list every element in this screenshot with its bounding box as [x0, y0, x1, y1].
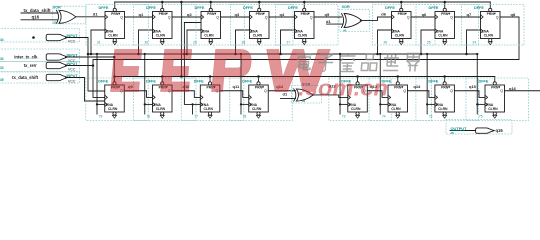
svg-text:PRN: PRN [398, 12, 406, 16]
svg-text:PRN: PRN [207, 12, 215, 16]
flip-flop DFFE #1 (q1) [86, 5, 149, 46]
svg-text:DFFE: DFFE [428, 79, 438, 83]
svg-text:Q: Q [500, 89, 503, 93]
svg-text:Q: Q [450, 15, 453, 19]
svg-text:78: 78 [243, 115, 247, 119]
wire q9 [124, 84, 152, 97]
svg-text:DFFE: DFFE [474, 6, 484, 10]
wire q16 out [505, 86, 540, 91]
svg-text:q8: q8 [511, 12, 516, 17]
svg-text:CLRN: CLRN [204, 107, 214, 111]
svg-text:PRN: PRN [111, 12, 119, 16]
wire q2 [172, 12, 201, 17]
flip-flop DFFE #4 (q4) [231, 5, 294, 46]
svg-text:q5: q5 [325, 12, 330, 17]
svg-text:q7: q7 [467, 12, 472, 17]
svg-text:26: 26 [384, 40, 388, 44]
svg-text:q6: q6 [422, 12, 427, 17]
wire tx_rst [66, 64, 95, 67]
svg-text:25: 25 [427, 40, 431, 44]
output pin q16 [446, 120, 512, 135]
flip-flop DFFE #10 (q10) [134, 78, 197, 121]
svg-text:VCC: VCC [68, 40, 76, 44]
svg-text:31: 31 [97, 40, 101, 44]
wire q13 [367, 84, 388, 97]
svg-text:24: 24 [473, 40, 477, 44]
svg-text:40: 40 [343, 29, 347, 33]
svg-text:Q: Q [264, 89, 267, 93]
wire q5 into XOR2 [314, 12, 342, 17]
svg-text:35: 35 [0, 78, 4, 82]
flip-flop DFFE #5 (q5) [276, 5, 339, 46]
wire: clock rail and ENA risers, top row [88, 30, 481, 55]
svg-text:36: 36 [451, 131, 455, 135]
wire q1 [125, 12, 153, 17]
svg-text:.com.cn: .com.cn [298, 76, 388, 101]
input pin (unnamed, bullet) [0, 29, 80, 44]
svg-text:q14: q14 [413, 84, 421, 89]
wire q10 [172, 84, 200, 97]
svg-text:Q: Q [265, 15, 268, 19]
svg-text:PRN: PRN [491, 86, 499, 90]
svg-text:Q: Q [216, 15, 219, 19]
flip-flop DFFE #15 (q15) [416, 78, 479, 121]
svg-text:d1: d1 [326, 19, 331, 24]
svg-text:CLRN: CLRN [395, 34, 405, 38]
svg-text:30: 30 [145, 40, 149, 44]
flip-flop DFFE #14 (q14) [369, 78, 432, 121]
svg-text:DFFE: DFFE [288, 6, 298, 10]
svg-text:CLRN: CLRN [252, 107, 262, 111]
flip-flop DFFE #13 (q13) [329, 78, 392, 121]
svg-text:DFFE: DFFE [146, 6, 156, 10]
watermark: grey Chinese characters [295, 53, 419, 72]
svg-text:CLRN: CLRN [156, 107, 166, 111]
XOR gate X2 (q5, d1 -> d6) [326, 5, 370, 33]
svg-text:CLRN: CLRN [156, 34, 166, 38]
svg-text:DFFE: DFFE [99, 6, 109, 10]
svg-text:q11: q11 [233, 84, 240, 89]
svg-text:d1: d1 [283, 91, 288, 96]
svg-text:34: 34 [0, 38, 4, 42]
flip-flop DFFE #2 (q2) [134, 5, 197, 46]
wire d13 [313, 83, 348, 97]
svg-text:76: 76 [147, 115, 151, 119]
svg-text:28: 28 [242, 40, 246, 44]
flip-flop DFFE #16 (q16) [466, 78, 529, 121]
svg-text:79: 79 [99, 115, 103, 119]
wire q4 [269, 12, 295, 17]
svg-text:Q: Q [450, 89, 453, 93]
svg-text:PRN: PRN [256, 12, 264, 16]
bottom row ENA stubs and junction dots [96, 53, 485, 114]
svg-text:CLRN: CLRN [298, 34, 308, 38]
svg-text:21: 21 [53, 20, 57, 24]
wire d6 [360, 11, 391, 20]
svg-text:PRN: PRN [441, 86, 449, 90]
svg-text:74: 74 [382, 115, 386, 119]
flip-flop DFFE #7 (q7) [416, 5, 479, 46]
svg-text:CLRN: CLRN [488, 107, 498, 111]
input pin tx_data_shift [0, 72, 80, 84]
svg-text:PRN: PRN [255, 86, 263, 90]
svg-text:q4: q4 [280, 12, 285, 17]
svg-text:DFFE: DFFE [242, 79, 252, 83]
wire q3 [221, 12, 250, 17]
svg-text:32: 32 [0, 66, 4, 70]
svg-text:DFFE: DFFE [194, 79, 204, 83]
svg-text:q15: q15 [469, 84, 477, 89]
wire tx_data_shift [66, 78, 105, 102]
svg-text:d1: d1 [93, 11, 98, 16]
svg-text:DFFE: DFFE [195, 6, 205, 10]
wire from bullet pin down left column [66, 38, 105, 92]
svg-text:CLRN: CLRN [108, 107, 118, 111]
wire: bottom preset rail [113, 75, 495, 82]
svg-text:DFFE: DFFE [98, 79, 108, 83]
wire d1 [76, 11, 105, 16]
svg-text:Q: Q [310, 15, 313, 19]
svg-text:CLRN: CLRN [108, 34, 118, 38]
svg-text:CLRN: CLRN [438, 107, 448, 111]
svg-text:DFFE: DFFE [385, 6, 395, 10]
svg-text:77: 77 [194, 115, 198, 119]
input pin inter_tx_clk [0, 49, 80, 63]
svg-text:VCC: VCC [68, 80, 76, 84]
svg-text:tx_reV: tx_reV [24, 63, 37, 68]
svg-text:CLRN: CLRN [391, 107, 401, 111]
wire: top preset rail (VCC net) [115, 1, 491, 9]
svg-text:VCC: VCC [68, 68, 76, 72]
svg-text:q16: q16 [509, 86, 517, 91]
svg-text:q3: q3 [235, 12, 240, 17]
svg-text:tx_data_shift: tx_data_shift [12, 75, 38, 80]
svg-text:PRN: PRN [441, 12, 449, 16]
svg-text:75: 75 [479, 115, 483, 119]
svg-text:Q: Q [496, 15, 499, 19]
wire q15 [454, 84, 485, 97]
wire q7 [455, 12, 481, 17]
flip-flop DFFE #12 (q12) [230, 78, 293, 121]
wire: V2 vertical + FF3 entry [183, 23, 201, 105]
svg-text:q16: q16 [32, 14, 40, 19]
svg-text:PRN: PRN [487, 12, 495, 16]
wire inter_tx_clk [66, 56, 116, 84]
input pin tx_rst [0, 62, 80, 72]
flip-flop DFFE #6 (q6) [373, 5, 436, 46]
svg-text:CLRN: CLRN [438, 34, 448, 38]
flip-flop DFFE #3 (q3) [182, 5, 245, 46]
svg-text:CLRN: CLRN [351, 107, 361, 111]
flip-flop DFFE #9 (q9) [86, 78, 149, 121]
wire q6 [411, 12, 435, 17]
svg-text:inter_tx_clk: inter_tx_clk [14, 54, 38, 59]
svg-text:d6: d6 [381, 11, 386, 16]
flip-flop DFFE #8 (q8) [462, 5, 525, 46]
svg-text:PRN: PRN [301, 12, 309, 16]
svg-text:q1: q1 [139, 12, 144, 17]
label q8 [511, 12, 516, 17]
svg-text:27: 27 [287, 40, 291, 44]
svg-text:DFFE: DFFE [146, 79, 156, 83]
svg-text:CLRN: CLRN [253, 34, 263, 38]
svg-text:Q: Q [168, 15, 171, 19]
wire q11 [220, 84, 249, 97]
svg-text:DFFE: DFFE [479, 79, 489, 83]
svg-text:DFFE: DFFE [429, 6, 439, 10]
flip-flop DFFE #11 (q11) [181, 78, 244, 121]
svg-text:73: 73 [342, 115, 346, 119]
svg-text:72: 72 [429, 115, 433, 119]
svg-text:DFFE: DFFE [243, 6, 253, 10]
svg-text:tx_data_shift: tx_data_shift [24, 8, 52, 13]
wire q14 [408, 84, 435, 97]
svg-text:29: 29 [193, 40, 197, 44]
wire: vertical preset link V1 [180, 2, 183, 78]
svg-text:CLRN: CLRN [484, 34, 494, 38]
svg-text:CLRN: CLRN [204, 34, 214, 38]
svg-text:Q: Q [120, 15, 123, 19]
svg-text:PRN: PRN [394, 86, 402, 90]
svg-text:PRN: PRN [159, 12, 167, 16]
svg-text:XOR: XOR [342, 5, 350, 9]
svg-text:Q: Q [403, 89, 406, 93]
wire: q8 to FF9.D long route [93, 17, 519, 97]
wire q12 into XOR3 [268, 84, 295, 91]
svg-text:Q: Q [407, 15, 410, 19]
watermark: EEPW logo [111, 50, 388, 101]
svg-text:33: 33 [0, 57, 4, 61]
svg-text:q2: q2 [187, 12, 192, 17]
XOR gate X1 with tx_data_shift / q16 inputs [21, 6, 86, 25]
svg-text:q16: q16 [496, 128, 504, 133]
svg-text:XOR: XOR [53, 6, 61, 10]
XOR gate X3 (q12, d1 -> d13) [281, 83, 322, 104]
